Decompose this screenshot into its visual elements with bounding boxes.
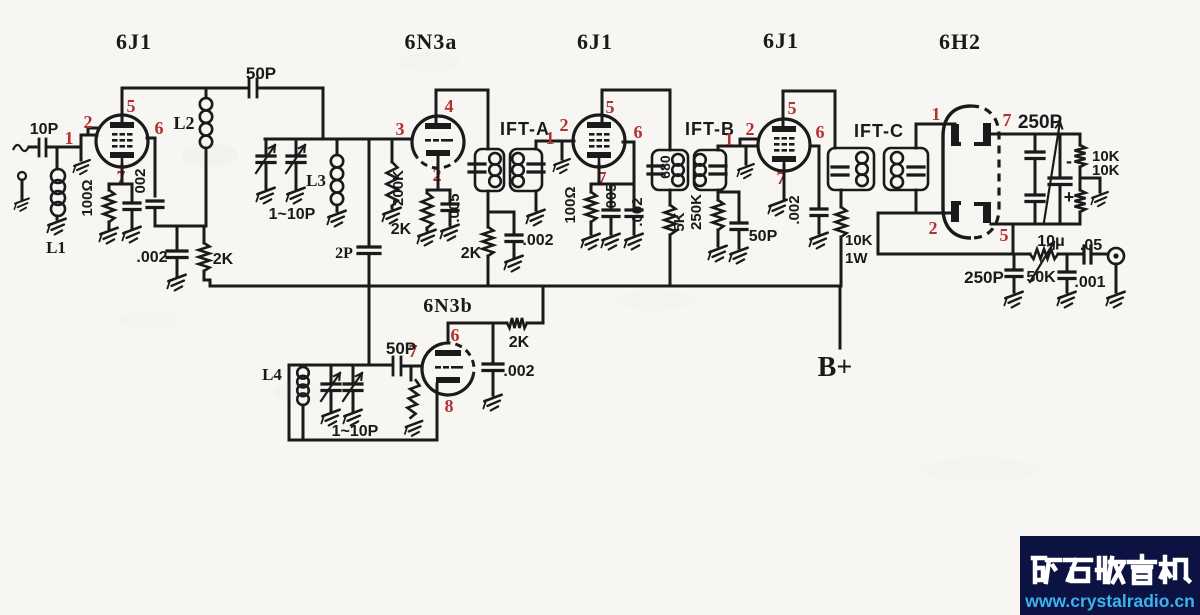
- svg-text:.002: .002: [522, 232, 553, 249]
- svg-text:2P: 2P: [335, 245, 353, 262]
- svg-text:3: 3: [396, 119, 405, 139]
- svg-text:.002: .002: [629, 197, 646, 226]
- svg-text:250P: 250P: [1018, 112, 1063, 133]
- svg-text:6N3b: 6N3b: [423, 295, 473, 317]
- svg-text:5: 5: [127, 96, 136, 116]
- svg-text:100Ω: 100Ω: [79, 179, 96, 216]
- svg-text:L4: L4: [262, 365, 282, 384]
- svg-text:-: -: [1066, 151, 1072, 171]
- svg-text:1: 1: [932, 104, 941, 124]
- svg-text:IFT-C: IFT-C: [854, 121, 904, 141]
- svg-text:1: 1: [725, 129, 734, 149]
- svg-text:L3: L3: [306, 171, 326, 190]
- svg-text:250K: 250K: [688, 194, 705, 230]
- svg-text:6: 6: [155, 118, 164, 138]
- svg-text:1~10P: 1~10P: [269, 206, 316, 223]
- svg-text:L1: L1: [46, 238, 66, 257]
- svg-text:6: 6: [816, 122, 825, 142]
- svg-text:10P: 10P: [30, 121, 59, 138]
- svg-text:50P: 50P: [386, 339, 416, 358]
- svg-text:200K: 200K: [390, 170, 407, 206]
- svg-text:7: 7: [1003, 110, 1012, 130]
- svg-text:2: 2: [929, 218, 938, 238]
- svg-text:.002: .002: [786, 195, 803, 224]
- svg-text:6H2: 6H2: [939, 29, 981, 54]
- svg-text:2: 2: [84, 112, 93, 132]
- svg-text:1: 1: [546, 128, 555, 148]
- svg-text:2K: 2K: [461, 245, 482, 262]
- svg-text:L2: L2: [173, 113, 194, 133]
- svg-text:6: 6: [451, 325, 460, 345]
- svg-text:50P: 50P: [246, 64, 276, 83]
- svg-text:10μ: 10μ: [1037, 233, 1065, 250]
- svg-text:1~10P: 1~10P: [332, 423, 379, 440]
- svg-text:5: 5: [788, 98, 797, 118]
- svg-text:1W: 1W: [845, 250, 868, 267]
- svg-text:6J1: 6J1: [763, 28, 799, 53]
- svg-text:6J1: 6J1: [577, 29, 613, 54]
- svg-text:2K: 2K: [391, 221, 412, 238]
- svg-text:www.crystalradio.cn: www.crystalradio.cn: [1024, 591, 1195, 611]
- svg-text:6: 6: [634, 122, 643, 142]
- svg-text:002: 002: [132, 168, 149, 193]
- svg-text:.002: .002: [503, 363, 534, 380]
- svg-text:4: 4: [445, 96, 454, 116]
- svg-text:.05: .05: [1080, 237, 1102, 254]
- svg-text:+: +: [1064, 187, 1075, 207]
- svg-text:6J1: 6J1: [116, 29, 152, 54]
- svg-text:2K: 2K: [213, 251, 234, 268]
- svg-text:IFT-A: IFT-A: [500, 119, 550, 139]
- svg-text:.005: .005: [446, 193, 463, 222]
- svg-text:6N3a: 6N3a: [405, 29, 458, 54]
- svg-text:10K: 10K: [845, 232, 873, 249]
- svg-text:10K: 10K: [1092, 162, 1120, 179]
- svg-text:B+: B+: [818, 352, 853, 383]
- svg-text:5: 5: [1000, 225, 1009, 245]
- svg-text:5: 5: [606, 97, 615, 117]
- svg-text:50K: 50K: [1026, 269, 1056, 286]
- svg-text:680: 680: [657, 155, 673, 179]
- svg-text:.005: .005: [603, 183, 620, 212]
- svg-text:250P: 250P: [964, 268, 1004, 287]
- svg-text:1: 1: [65, 128, 74, 148]
- svg-text:2: 2: [560, 115, 569, 135]
- svg-text:50P: 50P: [749, 228, 778, 245]
- svg-text:.001: .001: [1074, 274, 1105, 291]
- svg-text:8: 8: [445, 396, 454, 416]
- svg-text:100Ω: 100Ω: [562, 186, 579, 223]
- svg-text:2K: 2K: [509, 334, 530, 351]
- svg-text:2: 2: [746, 119, 755, 139]
- svg-text:5K: 5K: [671, 212, 688, 231]
- svg-text:.002: .002: [136, 249, 167, 266]
